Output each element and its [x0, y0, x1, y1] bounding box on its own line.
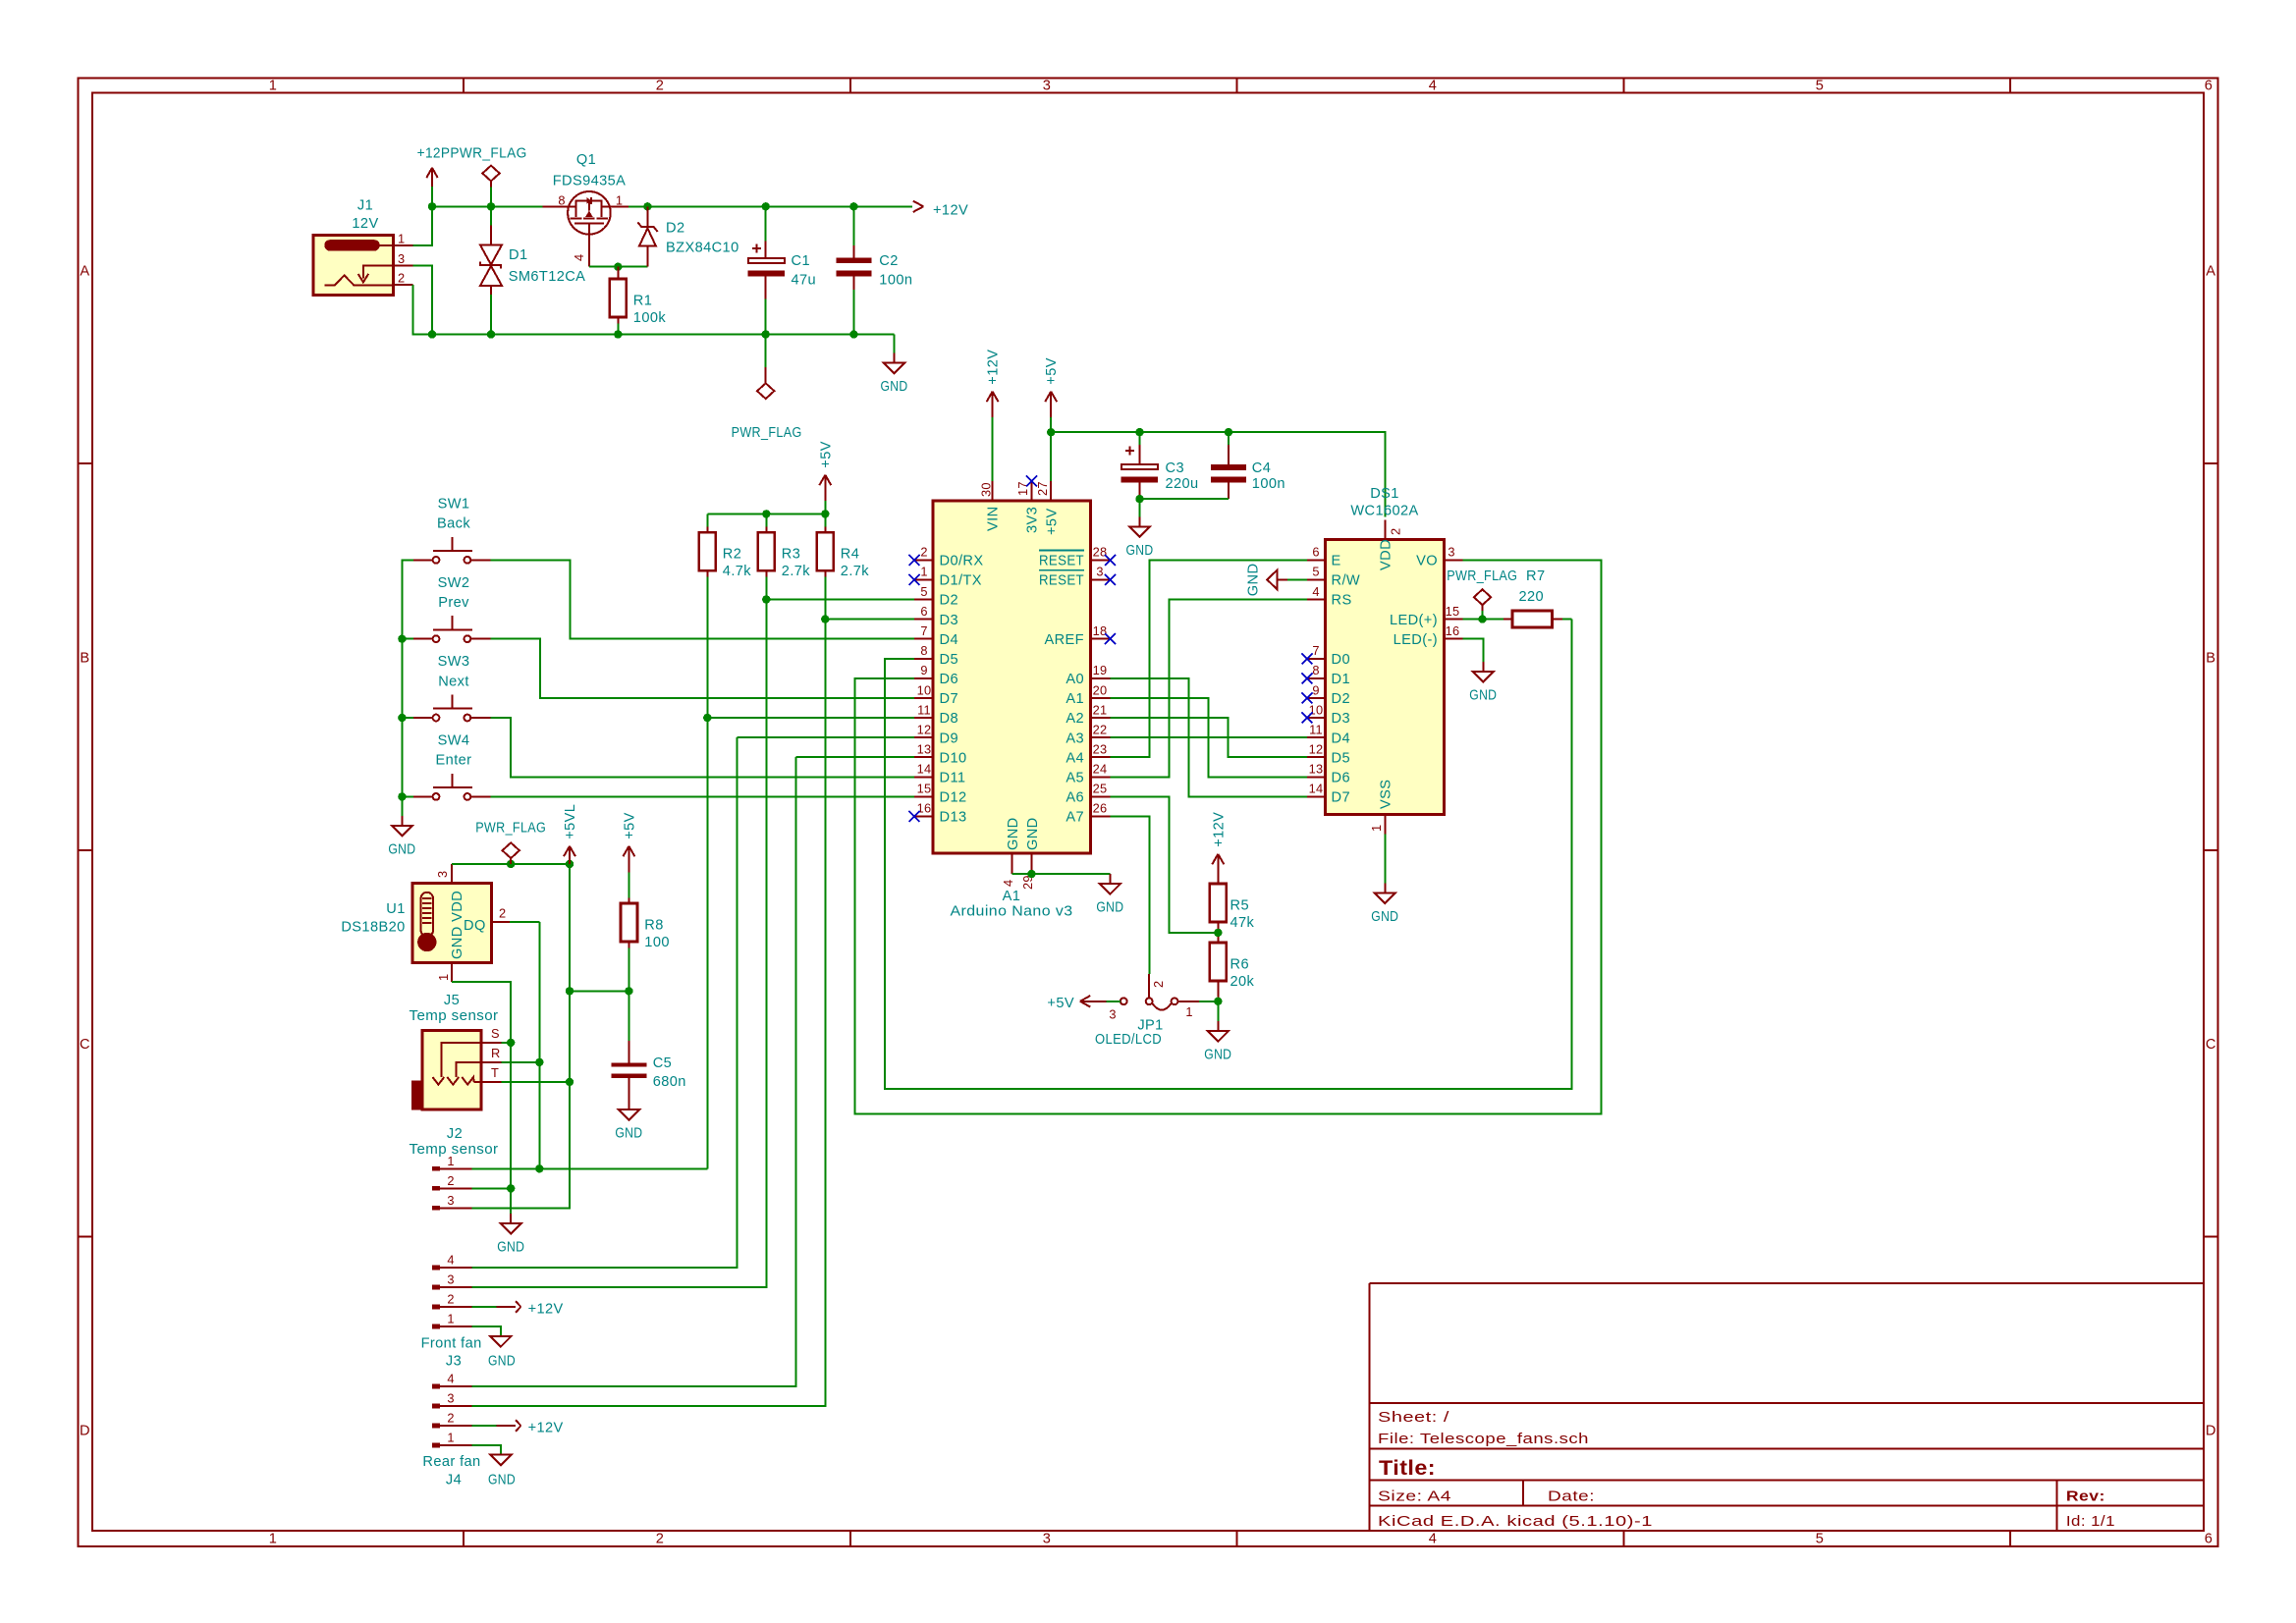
svg-text:100n: 100n	[1252, 476, 1285, 492]
transistor Q1	[543, 152, 629, 267]
svg-text:DS18B20: DS18B20	[341, 920, 405, 936]
wire arduino GND	[1012, 873, 1111, 875]
wire R2 junction to D8	[707, 717, 914, 719]
svg-text:SW3: SW3	[438, 654, 470, 670]
svg-text:+5V: +5V	[622, 812, 637, 839]
wire R1 to GND rail	[617, 324, 619, 335]
svg-text:+5V: +5V	[1047, 996, 1074, 1011]
wire GND rail	[412, 334, 894, 336]
svg-text:14: 14	[1309, 782, 1324, 796]
connector J4 rear fan	[422, 1372, 480, 1488]
wire pullup rail	[707, 513, 825, 514]
svg-text:11: 11	[917, 702, 931, 717]
svg-text:12: 12	[1309, 742, 1324, 757]
zener diode D2	[637, 206, 738, 266]
svg-text:Title:: Title:	[1379, 1457, 1436, 1480]
wire J5 T to +5VL	[502, 1081, 571, 1083]
wire J3.4 to D9	[471, 737, 737, 1268]
junction	[1478, 615, 1486, 622]
svg-text:A4: A4	[1066, 750, 1084, 766]
ground	[1126, 516, 1154, 559]
svg-text:Id: 1/1: Id: 1/1	[2066, 1514, 2115, 1530]
svg-text:B: B	[80, 650, 89, 666]
svg-text:220: 220	[1519, 589, 1545, 605]
svg-text:D7: D7	[940, 691, 958, 707]
svg-text:10: 10	[917, 682, 932, 697]
ground (J4)	[488, 1455, 516, 1488]
svg-text:6: 6	[1312, 545, 1319, 560]
svg-text:47u: 47u	[792, 273, 817, 289]
svg-text:1: 1	[447, 1154, 454, 1168]
wire +5V to JP1.3	[1107, 1001, 1121, 1002]
svg-text:J3: J3	[446, 1354, 462, 1370]
svg-text:100: 100	[644, 935, 670, 950]
wire +5V to R8	[628, 872, 629, 897]
svg-text:+12V: +12V	[933, 203, 968, 219]
resistor R5	[1210, 878, 1255, 931]
wire J2.1 to DQ	[471, 1167, 707, 1169]
svg-text:2: 2	[1151, 981, 1166, 988]
svg-text:6: 6	[920, 604, 927, 619]
svg-text:R5: R5	[1230, 897, 1249, 913]
svg-text:4: 4	[447, 1253, 454, 1268]
svg-text:3: 3	[1096, 565, 1103, 579]
svg-text:3: 3	[447, 1272, 454, 1287]
wire R6 to JP1 row	[1217, 987, 1219, 1001]
junction	[762, 330, 770, 338]
ground (R/W)	[1246, 564, 1308, 597]
svg-text:2.7k: 2.7k	[841, 564, 869, 579]
svg-text:GND: GND	[881, 379, 908, 395]
svg-text:A2: A2	[1066, 711, 1084, 727]
svg-text:GND: GND	[1469, 687, 1497, 703]
connector J2 temp sensor	[410, 1126, 499, 1211]
svg-text:3: 3	[1448, 545, 1454, 560]
svg-text:RS: RS	[1332, 593, 1352, 609]
wire J1 pin2 to GND rail	[412, 285, 432, 335]
svg-text:Q1: Q1	[576, 152, 596, 168]
svg-text:D13: D13	[940, 810, 967, 826]
svg-text:9: 9	[920, 663, 927, 677]
svg-text:12: 12	[917, 722, 932, 736]
wire J4.4 to D10	[471, 757, 795, 1386]
svg-text:1: 1	[616, 193, 623, 208]
wire A4 to E	[1111, 560, 1308, 757]
wire U1 GND to J5 S	[452, 982, 511, 1043]
svg-text:2: 2	[1389, 528, 1403, 535]
svg-text:8: 8	[1312, 663, 1319, 677]
svg-text:Front fan: Front fan	[421, 1336, 482, 1352]
svg-text:+5VL: +5VL	[563, 804, 578, 839]
svg-text:Rear fan: Rear fan	[422, 1454, 480, 1470]
wire R3 junction to D2	[766, 599, 914, 601]
svg-text:D4: D4	[940, 632, 958, 648]
svg-text:D10: D10	[940, 750, 967, 766]
wire PWR_FLAG stem2	[1482, 611, 1484, 620]
svg-text:2: 2	[447, 1292, 454, 1307]
svg-text:13: 13	[1309, 762, 1324, 777]
svg-text:2: 2	[656, 1532, 665, 1547]
ground (J3)	[488, 1336, 516, 1369]
junction	[566, 987, 574, 995]
svg-text:SW2: SW2	[438, 575, 470, 591]
wire to GND below JP1	[1217, 1001, 1219, 1021]
resistor R6	[1210, 937, 1255, 990]
wire VSS to GND	[1384, 835, 1386, 884]
wire GND net vertical	[510, 1043, 512, 1189]
svg-text:30: 30	[979, 482, 994, 497]
wire +12V to VIN	[992, 417, 994, 481]
svg-text:D0: D0	[1332, 652, 1350, 668]
wire J5 S to junction	[502, 1042, 512, 1044]
wire SW4 to D12	[490, 795, 914, 797]
svg-text:RESET: RESET	[1039, 554, 1084, 569]
svg-text:SW4: SW4	[438, 733, 470, 749]
TVS diode D1	[480, 226, 585, 295]
svg-text:1: 1	[269, 79, 278, 94]
junction	[762, 202, 770, 210]
ground	[388, 816, 415, 858]
svg-text:AREF: AREF	[1044, 632, 1084, 648]
junction	[1027, 870, 1035, 878]
svg-text:2: 2	[447, 1411, 454, 1426]
IC A1 Arduino Nano v3	[914, 481, 1111, 920]
junction	[821, 615, 829, 622]
no-connect	[909, 811, 920, 822]
svg-text:8: 8	[558, 193, 565, 208]
svg-text:Enter: Enter	[436, 753, 472, 769]
power flag PWR_FLAG (gnd)	[732, 335, 802, 442]
wire PWR_FLAG stem	[490, 187, 492, 206]
svg-text:1: 1	[447, 1431, 454, 1445]
junction	[762, 595, 770, 603]
switch SW2	[413, 575, 490, 642]
capacitor C5	[612, 1041, 686, 1100]
svg-text:VDD: VDD	[1379, 539, 1394, 570]
wire C1 to GND rail	[765, 299, 767, 335]
svg-text:GND: GND	[1246, 564, 1262, 597]
svg-text:D11: D11	[940, 771, 966, 786]
svg-text:FDS9435A: FDS9435A	[553, 174, 627, 189]
svg-text:1: 1	[398, 232, 405, 246]
svg-text:4: 4	[1001, 880, 1015, 887]
svg-text:+12V: +12V	[1211, 812, 1227, 847]
capacitor C2	[837, 206, 913, 290]
power +5VL	[563, 804, 578, 873]
wire LED(+) to R7	[1463, 619, 1503, 621]
wire +5V rail to LCD VDD	[1051, 432, 1385, 516]
wire to R3	[765, 514, 767, 526]
svg-text:2: 2	[398, 270, 405, 285]
wire Q1 gate row	[589, 266, 648, 268]
svg-text:PWR_FLAG: PWR_FLAG	[732, 425, 802, 441]
svg-text:Back: Back	[437, 516, 470, 532]
svg-text:23: 23	[1093, 742, 1108, 757]
junction	[487, 202, 495, 210]
wire to J2 GND	[510, 1188, 512, 1214]
no-connect	[909, 555, 920, 566]
switch SW1	[413, 497, 490, 564]
svg-text:OLED/LCD: OLED/LCD	[1095, 1032, 1162, 1048]
svg-text:3: 3	[435, 871, 450, 878]
svg-text:7: 7	[1312, 643, 1319, 658]
svg-text:C: C	[80, 1037, 90, 1053]
ground	[881, 353, 908, 396]
svg-text:+12V: +12V	[528, 1421, 564, 1436]
svg-text:D: D	[80, 1424, 90, 1439]
wire A1 to D6	[1111, 698, 1308, 777]
connector J1	[313, 198, 412, 296]
svg-text:VO: VO	[1416, 554, 1438, 569]
svg-text:2: 2	[920, 545, 927, 560]
svg-text:25: 25	[1093, 782, 1108, 796]
svg-text:2.7k: 2.7k	[782, 564, 810, 579]
wire A3 to D4	[1111, 736, 1308, 738]
svg-text:9: 9	[1312, 682, 1319, 697]
svg-text:4: 4	[1312, 584, 1319, 599]
IC U1 DS18B20	[341, 864, 539, 982]
switch SW3	[413, 654, 490, 721]
svg-text:D2: D2	[1332, 691, 1350, 707]
resistor R7	[1503, 568, 1562, 627]
power +12V (J4)	[496, 1420, 563, 1435]
svg-text:GND: GND	[1096, 900, 1123, 916]
wire +5V to pullups	[824, 501, 826, 514]
capacitor C3	[1121, 432, 1198, 499]
svg-text:Date:: Date:	[1548, 1489, 1595, 1505]
svg-text:R7: R7	[1526, 568, 1545, 584]
junction	[535, 1058, 543, 1066]
svg-text:D6: D6	[1332, 771, 1350, 786]
junction	[398, 714, 406, 722]
junction	[507, 1184, 515, 1192]
svg-text:19: 19	[1093, 663, 1108, 677]
wire R4 vertical to J4 pin3	[471, 577, 825, 1406]
wire J2.3 to +5VL	[471, 1207, 570, 1209]
power +5V	[622, 812, 637, 872]
capacitor C1	[747, 206, 816, 298]
svg-text:R8: R8	[644, 918, 663, 934]
wire R8/+5VL link	[570, 990, 629, 992]
svg-text:5: 5	[1312, 565, 1319, 579]
svg-text:D: D	[2206, 1424, 2216, 1439]
capacitor C4	[1211, 432, 1285, 499]
svg-text:100k: 100k	[633, 310, 667, 326]
wire R7 right	[1562, 619, 1572, 621]
wire D1 to GND rail	[490, 295, 492, 335]
svg-text:C: C	[2206, 1037, 2216, 1053]
svg-text:14: 14	[917, 762, 932, 777]
svg-text:A1: A1	[1066, 691, 1084, 707]
svg-text:D6: D6	[940, 672, 958, 687]
svg-text:KiCad E.D.A. kicad (5.1.10)-1: KiCad E.D.A. kicad (5.1.10)-1	[1378, 1514, 1653, 1530]
svg-text:BZX84C10: BZX84C10	[666, 241, 739, 256]
svg-text:16: 16	[1446, 623, 1460, 638]
resistor R4	[817, 527, 869, 580]
resistor R2	[699, 527, 751, 580]
power +5V	[818, 441, 834, 501]
no-connect	[909, 574, 920, 585]
svg-text:C4: C4	[1252, 460, 1271, 476]
svg-text:26: 26	[1093, 801, 1108, 816]
svg-text:D3: D3	[1332, 711, 1350, 727]
svg-text:+5V: +5V	[818, 441, 834, 468]
svg-text:D2: D2	[940, 593, 958, 609]
svg-text:R3: R3	[782, 547, 800, 563]
junction	[1135, 495, 1143, 503]
svg-text:22: 22	[1093, 722, 1108, 736]
svg-text:GND: GND	[1126, 543, 1154, 559]
svg-text:4: 4	[1429, 1532, 1438, 1547]
svg-text:Size: A4: Size: A4	[1378, 1489, 1451, 1505]
svg-text:VIN: VIN	[986, 506, 1002, 531]
junction	[1214, 929, 1222, 937]
svg-text:2: 2	[499, 906, 506, 921]
no-connect	[1105, 555, 1116, 566]
wire J3.1 to GND	[471, 1326, 501, 1336]
svg-text:+12V: +12V	[986, 350, 1002, 385]
svg-text:3: 3	[1109, 1007, 1116, 1022]
svg-text:R2: R2	[723, 547, 741, 563]
connector J3 front fan	[421, 1253, 482, 1370]
wire VO to D6 loop	[855, 560, 1602, 1113]
svg-text:D9: D9	[940, 730, 958, 746]
wire switch left stub	[402, 717, 413, 719]
wire R5/R6 junction	[1217, 928, 1219, 943]
svg-text:S: S	[491, 1026, 500, 1041]
wire A7 to JP1	[1111, 816, 1150, 974]
svg-text:Arduino Nano v3: Arduino Nano v3	[951, 904, 1073, 920]
connector J5 temp sensor jack	[410, 993, 502, 1109]
switch SW4	[413, 733, 490, 800]
wire C3 to GND	[1139, 499, 1141, 516]
ground	[1204, 1021, 1231, 1063]
svg-text:R/W: R/W	[1332, 573, 1361, 589]
svg-text:T: T	[491, 1065, 499, 1080]
wire rail to D1	[490, 206, 492, 225]
svg-text:+12PPWR_FLAG: +12PPWR_FLAG	[417, 146, 527, 162]
svg-text:6: 6	[2205, 79, 2214, 94]
junction	[398, 635, 406, 643]
svg-text:D0/RX: D0/RX	[940, 554, 984, 569]
svg-text:GND: GND	[1204, 1048, 1231, 1063]
svg-text:C2: C2	[879, 253, 898, 269]
power +5V	[1044, 357, 1060, 417]
IC DS1 WC1602A LCD	[1307, 486, 1463, 835]
svg-text:D1/TX: D1/TX	[940, 573, 982, 589]
wire D10 stub	[796, 756, 914, 758]
svg-text:C1: C1	[792, 253, 810, 269]
svg-text:D5: D5	[940, 652, 958, 668]
resistor R1	[610, 274, 667, 327]
junction	[1214, 998, 1222, 1005]
svg-text:SW1: SW1	[438, 497, 470, 513]
svg-text:WC1602A: WC1602A	[1350, 504, 1418, 519]
power flag PWR_FLAG	[482, 166, 499, 188]
svg-text:VSS: VSS	[1379, 780, 1394, 809]
svg-text:+5V: +5V	[1044, 357, 1060, 385]
junction	[428, 330, 436, 338]
power +12V output label	[913, 201, 968, 219]
svg-text:4: 4	[1429, 79, 1438, 94]
wire +12V input rail	[432, 205, 543, 207]
svg-text:13: 13	[917, 742, 932, 757]
junction	[1047, 428, 1055, 436]
no-connect	[1026, 476, 1037, 487]
svg-text:220u: 220u	[1166, 476, 1199, 492]
ground	[615, 1100, 642, 1142]
svg-text:B: B	[2206, 650, 2215, 666]
svg-text:DS1: DS1	[1370, 486, 1399, 502]
wire SW2 to D7	[490, 639, 914, 698]
junction	[643, 202, 651, 210]
svg-text:R1: R1	[633, 294, 652, 309]
junction	[625, 987, 632, 995]
wire J3.2 to +12V	[471, 1306, 496, 1308]
svg-text:18: 18	[1093, 623, 1108, 638]
svg-text:R4: R4	[841, 547, 859, 563]
wire U1 VDD rail	[452, 863, 570, 865]
power flag PWR_FLAG	[475, 821, 546, 865]
svg-text:A0: A0	[1066, 672, 1084, 687]
svg-text:4: 4	[572, 254, 586, 261]
wire +12V to R5	[1217, 880, 1219, 884]
no-connect	[1105, 633, 1116, 644]
wire R8 bottom	[628, 948, 629, 1041]
junction	[507, 1039, 515, 1047]
svg-text:GND: GND	[497, 1239, 524, 1255]
wire R4 junction to D3	[825, 619, 914, 621]
svg-text:1: 1	[1369, 825, 1384, 832]
svg-text:RESET: RESET	[1039, 573, 1084, 589]
svg-text:A: A	[80, 264, 89, 280]
svg-text:U1: U1	[386, 901, 405, 917]
svg-text:D1: D1	[509, 247, 527, 263]
svg-text:J5: J5	[444, 993, 460, 1008]
wire R2/DQ vertical	[706, 577, 708, 1169]
svg-text:DQ: DQ	[464, 918, 486, 934]
junction	[428, 202, 436, 210]
svg-text:File: Telescope_fans.sch: File: Telescope_fans.sch	[1378, 1432, 1589, 1447]
junction	[762, 510, 770, 517]
svg-text:1: 1	[1185, 1004, 1192, 1019]
wire C3/C4 bottom	[1140, 498, 1230, 500]
junction	[849, 202, 857, 210]
svg-text:24: 24	[1093, 762, 1108, 777]
svg-text:D4: D4	[1332, 730, 1350, 746]
svg-text:A6: A6	[1066, 790, 1084, 806]
wire JP1.1 to divider	[1199, 1001, 1218, 1002]
wire C2 to GND rail	[852, 290, 854, 335]
svg-text:2: 2	[656, 79, 665, 94]
wire D9 stub	[738, 736, 914, 738]
svg-text:11: 11	[1309, 722, 1323, 736]
junction	[614, 263, 622, 271]
wire A0 to D7	[1111, 678, 1308, 797]
svg-text:R6: R6	[1230, 956, 1249, 972]
wire to R2	[706, 514, 708, 526]
wire +12V rail right of Q1	[629, 205, 912, 207]
svg-text:3: 3	[1043, 1532, 1052, 1547]
svg-text:5: 5	[1816, 79, 1825, 94]
svg-text:1: 1	[436, 974, 451, 981]
ground	[1469, 662, 1497, 704]
svg-text:15: 15	[917, 782, 932, 796]
svg-text:12V: 12V	[352, 216, 378, 232]
junction	[1135, 428, 1143, 436]
svg-text:4.7k: 4.7k	[723, 564, 751, 579]
svg-text:3: 3	[398, 251, 405, 266]
